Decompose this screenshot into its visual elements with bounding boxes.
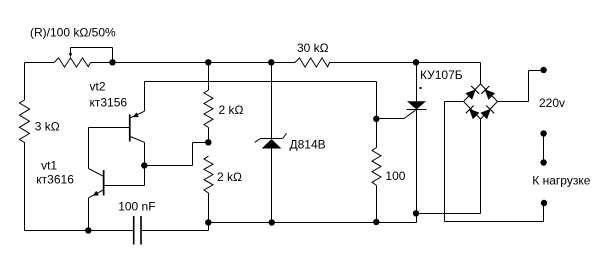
svg-text:кт3616: кт3616 — [36, 173, 74, 187]
svg-text:3 kΩ: 3 kΩ — [35, 120, 60, 134]
svg-text:100 nF: 100 nF — [118, 200, 155, 214]
svg-text:К нагрузке: К нагрузке — [532, 174, 590, 188]
svg-text:220v: 220v — [539, 96, 565, 110]
svg-text:Д814В: Д814В — [290, 137, 326, 151]
svg-text:30 kΩ: 30 kΩ — [297, 41, 329, 55]
svg-text:(R)/100 kΩ/50%: (R)/100 kΩ/50% — [30, 26, 116, 40]
svg-text:КУ107Б: КУ107Б — [420, 68, 463, 82]
svg-text:100: 100 — [385, 169, 405, 183]
svg-text:кт3156: кт3156 — [90, 96, 128, 110]
svg-text:vt1: vt1 — [41, 159, 57, 173]
svg-text:vt2: vt2 — [90, 80, 106, 94]
svg-text:2 kΩ: 2 kΩ — [217, 170, 242, 184]
svg-text:2 kΩ: 2 kΩ — [219, 103, 244, 117]
